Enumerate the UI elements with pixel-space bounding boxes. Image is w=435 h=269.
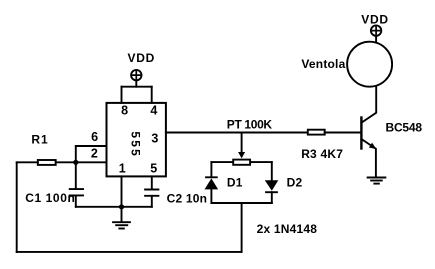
transistor Q1 emitter arrow [369,143,376,150]
svg-text:VDD: VDD [361,13,388,27]
node junction dot A [73,160,78,165]
transistor Q1 collector [361,86,376,122]
wire D1 top lead [210,162,212,176]
wire pin1 stub [121,176,123,206]
capacitor C1 [70,189,83,195]
potentiometer PT body [233,160,250,165]
wire riser to diode loop [241,203,243,252]
svg-text:2: 2 [91,146,98,160]
potentiometer PT wiper [241,133,243,152]
svg-text:5: 5 [128,140,142,147]
wire pin6 stub [76,145,107,147]
svg-text:C2 10n: C2 10n [167,191,208,205]
wire supply stub [135,80,137,86]
svg-text:Ventola: Ventola [301,57,345,71]
wire R1 to pin2 [56,161,107,163]
diode D2 [265,180,279,192]
wire R1 left lead [17,161,38,163]
svg-text:3: 3 [151,132,158,146]
motor M1 fan circle [347,42,392,87]
svg-text:PT 100K: PT 100K [227,118,273,132]
ground symbol under transistor [367,178,387,184]
wire pin3 output [166,132,307,134]
svg-text:VDD: VDD [128,51,155,65]
potentiometer PT arrow head [238,152,245,158]
wire junction vertical [75,146,77,189]
svg-text:R3 4K7: R3 4K7 [301,147,343,161]
diode D1 [205,177,219,189]
power VDD symbol left [131,70,141,80]
wire R3 to base [325,132,362,134]
wire bottom rail [17,251,242,253]
wire loop top right [251,161,272,163]
wire D1 bottom lead [210,189,212,203]
svg-text:5: 5 [150,162,157,176]
wire ground stub [121,207,123,222]
capacitor C2 [145,190,158,196]
svg-text:4: 4 [150,104,157,118]
svg-text:R1: R1 [31,132,48,146]
power VDD symbol right [371,25,381,35]
wire D2 top lead [271,162,273,180]
ground symbol under 555 [112,222,131,228]
IC U1 555 box [107,103,166,176]
wire pin4 stub [151,87,153,103]
wire ground bus under 555 [76,206,152,208]
wire loop top left [211,161,232,163]
wire left return vertical [16,162,18,252]
wire C2 bottom [151,196,153,207]
wire supply bracket [122,86,152,88]
wire C1 bottom [75,196,77,207]
resistor R3 [308,130,325,135]
wire D2 bottom lead [271,192,273,203]
node junction dot B [119,204,124,209]
svg-text:5: 5 [128,149,142,156]
transistor Q1 base bar [360,118,362,149]
transistor Q1 emitter [361,139,376,177]
wire loop bottom [211,202,271,204]
svg-text:D1: D1 [227,176,243,190]
wire fan top stub [375,36,377,42]
svg-text:BC548: BC548 [386,120,423,134]
svg-text:6: 6 [91,130,98,144]
svg-text:D2: D2 [287,176,303,190]
resistor R1 [38,160,56,165]
wire pin5 stub [151,176,153,189]
svg-text:1: 1 [119,162,126,176]
svg-text:5: 5 [128,131,142,138]
svg-text:C1 100n: C1 100n [25,191,75,205]
svg-text:2x 1N4148: 2x 1N4148 [257,222,318,236]
wire pin8 stub [121,87,123,103]
svg-text:8: 8 [121,104,128,118]
